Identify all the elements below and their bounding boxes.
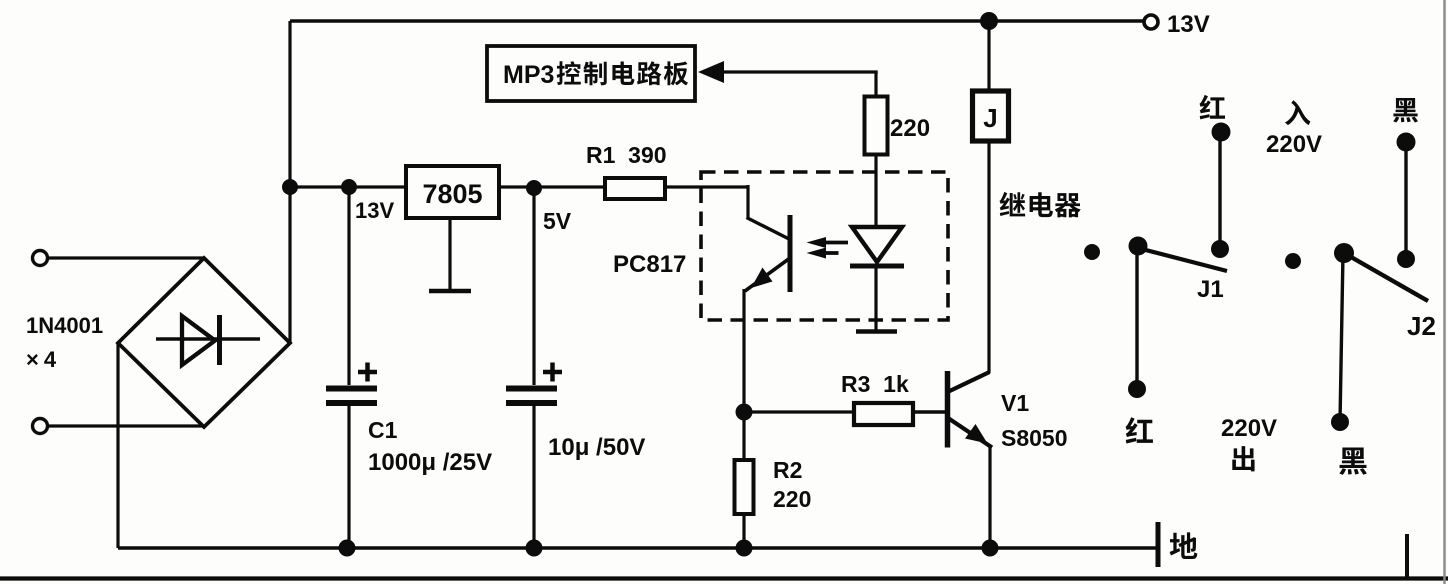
node: relay contact spare (right) <box>1285 253 1301 269</box>
label hong (red, out) <box>1126 417 1153 443</box>
resistor R2 220 <box>735 460 754 514</box>
label 1N4001 x4 <box>26 313 103 372</box>
junction: C1 tap <box>341 179 357 195</box>
label relay (jidianqi) <box>1000 192 1026 217</box>
node: 220V out black <box>1331 413 1349 431</box>
svg-text:1000μ /25V: 1000μ /25V <box>368 449 492 476</box>
node: 220V out red <box>1128 380 1146 398</box>
switch J2 pole <box>1334 243 1354 263</box>
wire: V1 emitter to ground rail <box>988 446 991 548</box>
node: 220V in red top <box>1212 123 1231 142</box>
wire: LED feed to MP3 board <box>722 72 878 97</box>
svg-text:R3 1k: R3 1k <box>841 371 909 397</box>
node: J1 contact <box>1211 240 1229 258</box>
junction: C1 on rail <box>339 540 356 557</box>
terminal: AC input top circle <box>33 251 48 266</box>
bottom page rule <box>0 576 1448 580</box>
wire: J2 pole to 220V out black <box>1340 253 1343 422</box>
arrow into MP3 board <box>698 61 724 83</box>
svg-text:R1 390: R1 390 <box>586 142 667 168</box>
label hei (black, in) <box>1393 98 1418 123</box>
svg-text:7805: 7805 <box>422 179 482 209</box>
wire: 13V line to 7805 <box>290 185 406 188</box>
junction: 13V tee <box>282 179 298 195</box>
svg-text:13V: 13V <box>1167 11 1210 38</box>
wire: 5V output line <box>499 185 605 188</box>
svg-text:5V: 5V <box>543 208 572 234</box>
svg-text:220V: 220V <box>1221 415 1277 442</box>
svg-text:V1: V1 <box>1001 390 1029 416</box>
svg-text:J1: J1 <box>1197 276 1224 303</box>
terminal: 13V output circle <box>1144 15 1158 29</box>
junction: relay tap on top rail <box>980 12 998 30</box>
junction: V1 emitter on rail <box>982 540 999 557</box>
opto emitter wire down <box>742 289 745 412</box>
wire: bridge + output up to rail <box>288 21 291 343</box>
svg-text:×4: ×4 <box>26 347 61 372</box>
svg-text:J: J <box>983 103 997 133</box>
terminal: AC input bottom circle <box>33 419 48 434</box>
resistor 220 (LED feed) <box>865 97 888 155</box>
wire: node to R2 <box>742 412 745 460</box>
switch J2 blade <box>1344 253 1428 301</box>
node: J2 contact <box>1397 250 1415 268</box>
svg-text:1N4001: 1N4001 <box>26 313 103 338</box>
resistor R3 1k <box>854 403 913 425</box>
opto LED (IR diode) <box>850 155 904 332</box>
wire: 220V in red <box>1218 132 1221 249</box>
label di (ground) <box>1170 532 1198 559</box>
junction: 5V node <box>526 180 542 196</box>
wire: +13V top rail <box>290 19 1151 22</box>
opto light arrows <box>807 237 849 259</box>
label R2 220 <box>773 457 811 512</box>
svg-text:PC817: PC817 <box>613 251 686 278</box>
svg-text:MP3: MP3 <box>503 61 554 89</box>
svg-text:S8050: S8050 <box>1001 425 1068 451</box>
wire: base node to R3 <box>744 410 854 413</box>
svg-text:13V: 13V <box>355 198 394 223</box>
right page edge (grey) <box>1443 0 1445 584</box>
resistor R1 390 <box>605 178 665 199</box>
bridge rectifier D1-D4 diamond <box>118 258 290 427</box>
label ru 220V (input) <box>1266 100 1322 158</box>
node: relay contact spare (left) <box>1084 244 1100 260</box>
wire: R3 to V1 base <box>913 410 949 413</box>
wire: R2 to ground rail <box>742 514 745 548</box>
svg-text:220: 220 <box>773 486 811 512</box>
label hei (black, out) <box>1339 448 1367 475</box>
regulator U1 7805 <box>406 166 499 218</box>
wire: AC input top <box>49 256 204 259</box>
svg-text:J2: J2 <box>1407 311 1436 341</box>
switch J1 pole <box>1129 237 1148 256</box>
svg-text:10μ /50V: 10μ /50V <box>548 434 645 461</box>
wire: R1 to optocoupler <box>665 185 789 239</box>
wire: J1 pole to 220V out red <box>1135 246 1138 389</box>
svg-text:C1: C1 <box>368 417 398 443</box>
junction: R2 on rail <box>736 540 753 557</box>
wire: relay from top rail <box>987 21 990 91</box>
bridge diode symbol <box>156 315 260 365</box>
svg-text:220: 220 <box>890 115 930 142</box>
ground terminal bar <box>1156 522 1161 567</box>
wire: 220V in black <box>1404 142 1407 259</box>
label hong (red, in) <box>1200 95 1225 119</box>
node: 220V in black top <box>1397 133 1416 152</box>
wire: bridge - output down to ground rail <box>116 343 119 548</box>
junction: base node <box>736 404 753 421</box>
svg-text:220V: 220V <box>1266 131 1322 158</box>
ground: 7805 gnd pin <box>429 218 471 291</box>
junction: C2 on rail <box>526 540 543 557</box>
label 220V chu (output) <box>1221 415 1277 471</box>
label MP3 control board <box>503 61 688 89</box>
opto phototransistor <box>745 215 790 292</box>
capacitor C2 10u/50V <box>506 188 562 548</box>
wire: ground rail <box>118 546 1158 549</box>
switch J1 blade <box>1138 248 1227 271</box>
wire: AC input bottom <box>49 424 204 427</box>
relay coil J box <box>973 91 1009 141</box>
optocoupler PC817 dashed box <box>701 172 948 320</box>
label V1 S8050 <box>1001 390 1068 451</box>
wire: stray vertical at bottom right <box>1405 534 1409 578</box>
svg-text:R2: R2 <box>773 457 802 483</box>
wire: relay to V1 collector <box>987 141 990 373</box>
label C1 1000u/25V <box>368 417 492 476</box>
capacitor C1 1000u/25V <box>326 187 377 548</box>
transistor V1 S8050 <box>947 371 993 448</box>
MP3 control board box <box>487 46 695 101</box>
